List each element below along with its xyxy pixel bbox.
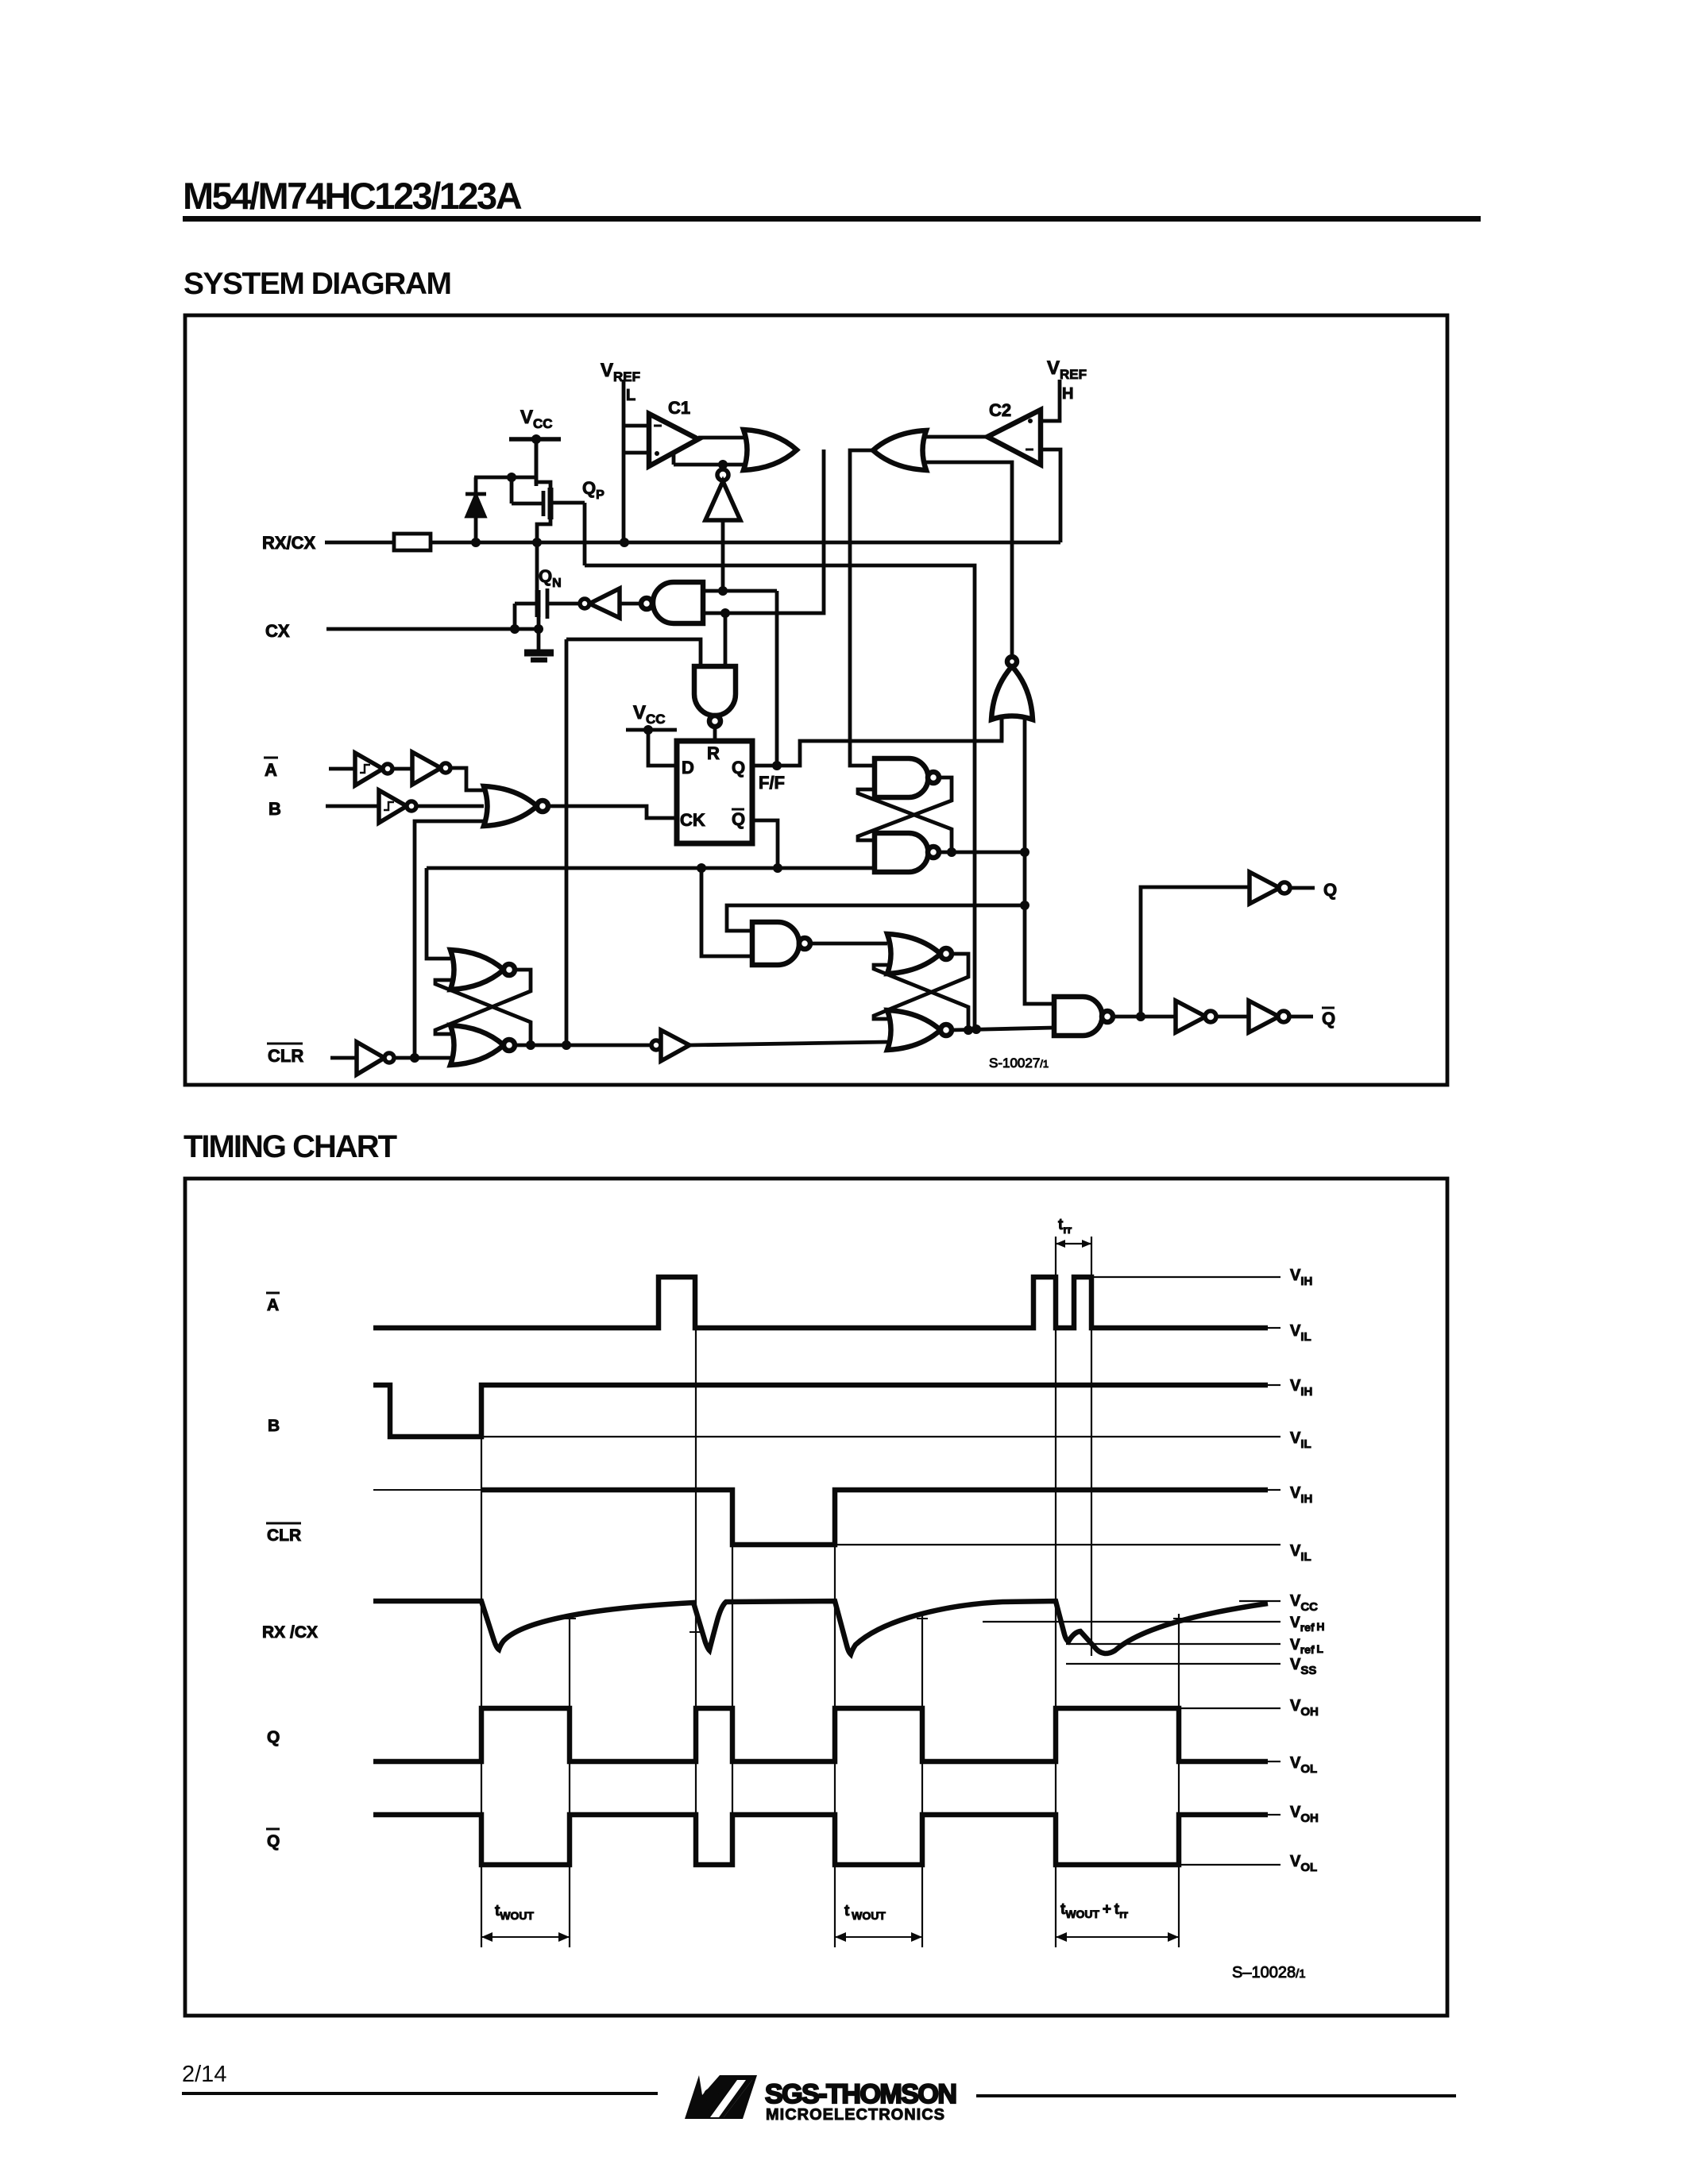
RX/CX VrefH reference line [983, 1621, 1280, 1623]
C2 minus marker [1026, 449, 1033, 451]
svg-text:Q: Q [267, 1728, 280, 1746]
wire CLR input [330, 1056, 357, 1060]
svg-text:VIH: VIH [1290, 1377, 1312, 1399]
wire RX/CX main horizontal net [431, 541, 1060, 545]
tick marks where grid crosses RX/CX [564, 1619, 1184, 1632]
junction NOR-LB output / CLR-R column [562, 1040, 571, 1050]
wire FF Qbar output down to cross net [752, 820, 778, 868]
svg-text:VREF: VREF [601, 360, 640, 384]
annotation tWOUT second [835, 1903, 922, 1942]
svg-text:SGS-THOMSON: SGS-THOMSON [765, 2079, 956, 2109]
label VREF H [1047, 357, 1087, 403]
wire OR2 lower input from big OR output [926, 462, 1012, 659]
RX/CX VCC reference line [1239, 1600, 1280, 1602]
wire big NOR left input from FF Q net [1000, 717, 1004, 741]
svg-text:VIH: VIH [1290, 1267, 1312, 1288]
Q VOL tail line [1268, 1761, 1280, 1762]
RX/CX VrefL reference line [1066, 1643, 1280, 1645]
wire y1093 into NOR-LT top input [427, 868, 450, 959]
svg-text:VIL: VIL [1290, 1430, 1311, 1451]
wire NAND-V output to FF R pin [713, 727, 717, 741]
NOR1 gate (A/B/feedback) [484, 786, 548, 826]
svg-text:VCC: VCC [520, 407, 553, 431]
svg-text:A: A [265, 760, 277, 780]
svg-text:S-10027/1: S-10027/1 [989, 1055, 1049, 1071]
svg-text:C2: C2 [989, 400, 1011, 420]
thin timing grid vertical x876 [695, 1277, 697, 1866]
svg-text:VOL: VOL [1290, 1853, 1317, 1874]
wire CLR inverter output to NOR-LB [394, 1056, 450, 1060]
wire NAND-H output to inverter input [620, 602, 640, 606]
wire Q branch riser [1141, 887, 1250, 1017]
wire B input [326, 805, 379, 808]
B VIH tail line [1268, 1384, 1280, 1386]
svg-text:VCC: VCC [1290, 1592, 1318, 1614]
junction Qbar wire / y1093 line [773, 863, 782, 873]
wire NAND-H bottom input from OR1 output [703, 450, 824, 613]
diode D1 (clamp to Vcc) [465, 477, 486, 542]
waveform CLRbar trace [481, 1490, 1268, 1545]
svg-text:tWOUT + trr: tWOUT + trr [1060, 1901, 1129, 1920]
junction VCC bar / D wire [643, 725, 653, 735]
thin timing grid vertical x1161 [921, 1614, 923, 1947]
inverter NOT1 (points up, bubble on top) [705, 469, 740, 520]
junction RX/CX / Qp drain-Qn drain [532, 538, 542, 547]
NOR-LB gate (left latch bottom) [450, 1025, 515, 1065]
wire Qbar output [1289, 1015, 1313, 1019]
svg-text:CX: CX [265, 621, 290, 641]
svg-text:VOL: VOL [1290, 1754, 1317, 1776]
NAND gate driving Qn inverter (left facing, output bubble left) [641, 582, 703, 623]
svg-text:Q: Q [1322, 1009, 1335, 1028]
junction FF Q / feedback riser [772, 761, 782, 770]
CLR VIH tail line [1268, 1489, 1280, 1491]
Abar VIH reference line [1091, 1276, 1280, 1278]
svg-text:QN: QN [539, 566, 562, 590]
system diagram frame [185, 315, 1447, 1085]
svg-text:CLR: CLR [267, 1526, 301, 1545]
svg-text:Q: Q [732, 809, 745, 829]
svg-text:S–10028/1: S–10028/1 [1232, 1964, 1306, 1981]
footer left rule [182, 2092, 658, 2095]
wire diode top / Qp gate bus to Vcc [474, 476, 536, 480]
svg-text:Q: Q [267, 1832, 280, 1850]
wire NOR1 output to FF CK [548, 806, 677, 818]
junction CX / Qn source [534, 624, 543, 634]
inverter driving Qn gate (left facing) [580, 588, 620, 618]
power symbol VCC (Qp) [509, 407, 561, 439]
RX/CX VSS reference line [1066, 1663, 1280, 1665]
NAND-M gate (mid bottom) [752, 922, 810, 965]
svg-text:MICROELECTRONICS: MICROELECTRONICS [766, 2106, 945, 2124]
wire NOT1 input from FF Q net [721, 520, 725, 591]
svg-text:Q: Q [1323, 880, 1337, 900]
waveform B trace [373, 1385, 1268, 1437]
svg-text:A: A [267, 1296, 279, 1314]
wire FF Q output to big OR left input [752, 720, 1002, 766]
transistor QP (PMOS) [512, 439, 585, 565]
label Abar input [264, 758, 278, 780]
upper latch cross-couple from NAND-RT output [858, 778, 952, 840]
timing chart frame [185, 1179, 1447, 2016]
upper latch cross-couple from NAND-RB output [858, 789, 952, 852]
NAND-RT gate (upper latch top) [875, 758, 939, 797]
wire NAND-V left input from CLR net [566, 639, 701, 666]
Qbar VOH tail line [1268, 1814, 1280, 1815]
junction OR1 lower input / NOT1 output [718, 460, 728, 469]
svg-text:VIH: VIH [1290, 1484, 1312, 1506]
comparator C1 [649, 414, 698, 466]
wire NAND-M output to NOR-RT input [810, 942, 887, 946]
svg-text:VOH: VOH [1290, 1804, 1319, 1825]
wire VCC to Qp source [535, 439, 539, 486]
FF pin label Qbar [732, 809, 745, 829]
C1 minus marker [654, 425, 662, 427]
wire CLR-R column up to NAND-V [565, 639, 569, 1045]
OR gate OR1 (after C1) [744, 430, 797, 470]
svg-text:D: D [682, 758, 694, 778]
wire FF Q feedback vertical [775, 591, 779, 766]
wire CX input [326, 627, 540, 631]
NAND-V gate (points down, drives FF R) [694, 666, 736, 727]
wire NAND-V right input [724, 613, 728, 666]
left latch cross-couple from NOR-LT output [435, 970, 531, 1034]
svg-text:Vref H: Vref H [1290, 1615, 1325, 1634]
svg-text:Vref L: Vref L [1290, 1637, 1323, 1656]
wire NAND-H top input from FF Q net [703, 589, 777, 593]
wire inverter A2 to NOR1 top input [450, 768, 484, 790]
wire Qp body line (y=712) to right column [585, 565, 975, 1029]
wire VREF H into C2 [1041, 380, 1060, 421]
section heading: SYSTEM DIAGRAM [183, 268, 451, 299]
resistor R on RX/CX [394, 534, 431, 550]
flip-flop F/F block [677, 741, 752, 843]
junction big NOR right input / NAND-RB output [1020, 847, 1029, 857]
waveform RX/CX trace [373, 1601, 1268, 1654]
SGS-THOMSON logo parallelogram [675, 2065, 977, 2132]
Qbar VOL reference line [1179, 1864, 1280, 1866]
inverter CLR [357, 1042, 394, 1075]
label Qbar output [1322, 1008, 1335, 1028]
Q VOH reference line [1179, 1707, 1280, 1709]
label waveform Abar [266, 1293, 280, 1314]
footer page number 2/14 [182, 2062, 226, 2088]
wire net y1093 (Qbar collector line) [427, 866, 875, 870]
NOR-RT gate (lower latch top) [887, 934, 952, 974]
svg-text:B: B [268, 799, 281, 819]
inverter A1 (schmitt) [355, 753, 392, 785]
label VREF L [601, 360, 640, 404]
svg-text:VIL: VIL [1290, 1542, 1311, 1564]
big NOR gate (vertical, output up) [991, 657, 1033, 720]
wire NOR-LB output line to inverter M [515, 1044, 651, 1048]
junction gate bus [507, 473, 516, 482]
comparator C2 (left facing) [987, 410, 1041, 465]
svg-text:Q: Q [732, 758, 745, 778]
lower latch cross-couple from NOR-RT output [874, 954, 968, 1019]
wire inverter A1 to A2 [392, 767, 412, 771]
inverter M (bubble on input) [651, 1030, 689, 1061]
waveform Q trace [373, 1708, 1268, 1761]
wire NAND-RB output to right column [939, 851, 1027, 855]
left latch cross-couple from NOR-LB output [435, 980, 531, 1045]
wire RX/CX riser to C2 input [1041, 450, 1060, 542]
thin timing grid vertical x717 [569, 1614, 570, 1947]
C2 input marker [1028, 419, 1033, 423]
wire branch to NAND-M lower input [701, 868, 752, 956]
header rule [183, 216, 1481, 222]
svg-text:C1: C1 [668, 398, 690, 418]
wire inverter B1 to NOR1 [416, 805, 484, 808]
wire NAND-R output to Qbar inverters [1113, 1015, 1176, 1019]
thin timing grid vertical x1374 [1091, 1237, 1092, 1656]
wire Q output [1290, 886, 1315, 890]
inverter Qbar stage 2 [1249, 1001, 1289, 1032]
thin timing grid vertical x1329 [1055, 1237, 1056, 1947]
lower latch cross-couple from NOR-RB output [874, 965, 968, 1030]
wire Qbar stage1 to stage2 [1216, 1015, 1249, 1019]
thin timing grid vertical x606 [481, 1385, 482, 1947]
wire C2 output to OR2 input [926, 435, 987, 439]
junction CLR net / NOR1 feedback column [410, 1053, 419, 1063]
svg-text:H: H [1062, 385, 1073, 403]
thin timing grid vertical x1484 [1178, 1614, 1180, 1947]
junction CX / Qn body loop [510, 624, 520, 634]
svg-text:RX/CX: RX/CX [262, 533, 316, 553]
label CLRbar input [267, 1044, 303, 1066]
svg-text:VIL: VIL [1290, 1322, 1311, 1344]
junction y1093 / NAND-M branch [697, 863, 706, 873]
wire OR1 lower input feedback [674, 453, 745, 465]
junction NOR-RB output / cross couple [964, 1025, 973, 1035]
Abar VIL tail line [1268, 1327, 1280, 1329]
junction NAND-H bottom input / NAND-V right input [720, 608, 730, 618]
annotation t_rr top [1056, 1217, 1091, 1248]
NOR-RB gate (lower latch bottom) [887, 1010, 952, 1050]
inverter B1 (schmitt) [379, 790, 416, 823]
wire NOR-RB output to NAND-R input [952, 1028, 1054, 1030]
wire NOR1 feedback input from CLR net [415, 821, 484, 1058]
footer right rule [976, 2094, 1456, 2097]
waveform Abar trace [373, 1277, 1268, 1328]
svg-text:tWOUT: tWOUT [495, 1903, 535, 1922]
wire OR2 output down to NAND-RT input [850, 450, 875, 766]
junction RX/CX / C1 input riser [620, 538, 629, 547]
page header title [183, 177, 520, 214]
inverter Q output [1250, 872, 1290, 904]
NAND-RB gate (upper latch bottom) [875, 833, 939, 872]
svg-text:VOH: VOH [1290, 1697, 1319, 1719]
junction RX/CX / diode anode [471, 538, 481, 547]
label waveform CLRbar [266, 1523, 301, 1545]
label waveform Qbar [266, 1829, 280, 1850]
junction big NOR right input / y1140 line [1020, 901, 1029, 910]
power symbol VCC (FF D input) [626, 702, 677, 730]
svg-text:t WOUT: t WOUT [844, 1903, 886, 1922]
inverter A2 [412, 752, 450, 785]
svg-text:trr: trr [1058, 1217, 1072, 1236]
svg-text:B: B [268, 1417, 280, 1435]
CLR VIL reference line [835, 1544, 1280, 1545]
B VIL reference line [481, 1436, 1280, 1437]
section heading: TIMING CHART [183, 1131, 396, 1163]
wire latch net down to NAND-R top input [1025, 905, 1054, 1004]
svg-text:VCC: VCC [633, 702, 666, 727]
junction VCC bar / Qp source [531, 434, 541, 444]
wire VREF L / RX-CX sense vertical into C1 [624, 380, 649, 542]
inverter Qbar stage 1 [1176, 1001, 1216, 1032]
junction NOR-LB output / cross couple [526, 1040, 535, 1050]
junction NAND-R output / Q branch [1136, 1012, 1145, 1021]
transistor QN (NMOS) [515, 542, 579, 651]
svg-text:CK: CK [680, 810, 705, 830]
wire C1 output to OR1 [698, 436, 744, 440]
wire Abar input [329, 767, 355, 771]
junction NAND-RB output / cross couple [947, 847, 956, 857]
wire RX/CX input to resistor [325, 541, 394, 545]
waveform Qbar trace [373, 1815, 1268, 1865]
thin timing grid vertical x1051 [834, 1490, 836, 1947]
svg-text:QP: QP [582, 478, 605, 502]
NOR-LT gate (left latch top) [450, 950, 515, 990]
svg-text:F/F: F/F [759, 773, 785, 793]
NAND-R output gate [1054, 997, 1113, 1036]
svg-text:VREF: VREF [1047, 357, 1087, 382]
annotation tWOUT first [481, 1903, 570, 1942]
wire net y1140 from NAND-M upper input [727, 905, 1025, 931]
wire big NOR right input from latch net [1023, 717, 1027, 905]
junction NOR-RB output / Qp body net column [971, 1024, 981, 1034]
C1 plus marker [655, 451, 659, 456]
wire VCC to FF D input [648, 730, 677, 766]
svg-text:R: R [707, 743, 720, 763]
wire inverter M output to NOR-RB input [689, 1042, 887, 1045]
svg-text:L: L [626, 387, 635, 404]
thin timing grid vertical x922 [732, 1490, 733, 1866]
ground symbol (Qn source) [524, 653, 554, 660]
svg-text:CLR: CLR [268, 1046, 303, 1066]
OR gate OR2 (left facing) [873, 430, 926, 470]
svg-text:RX /CX: RX /CX [262, 1623, 318, 1642]
junction NAND-H top input / NOT1 input [718, 586, 728, 596]
svg-text:VSS: VSS [1290, 1656, 1316, 1677]
annotation tWOUT + trr [1056, 1901, 1179, 1942]
